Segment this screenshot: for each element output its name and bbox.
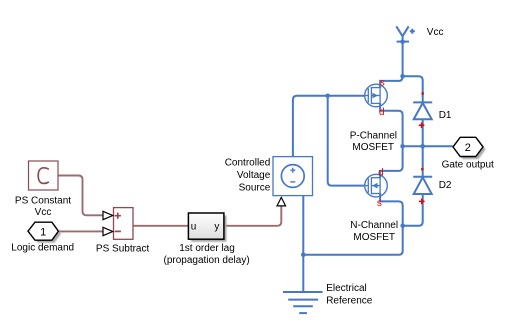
svg-text:Reference: Reference	[326, 296, 373, 307]
svg-text:D1: D1	[439, 110, 452, 121]
svg-text:d: d	[378, 168, 384, 179]
svg-text:P-Channel: P-Channel	[350, 130, 397, 141]
svg-text:Logic demand: Logic demand	[11, 243, 74, 254]
svg-text:d: d	[379, 107, 385, 118]
svg-text:D2: D2	[439, 180, 452, 191]
svg-text:s: s	[380, 78, 385, 89]
svg-text:Electrical: Electrical	[326, 283, 367, 294]
svg-text:Controlled: Controlled	[225, 158, 271, 169]
svg-text:PS Subtract: PS Subtract	[96, 244, 150, 255]
svg-text:2: 2	[465, 142, 471, 154]
svg-text:s: s	[377, 198, 382, 209]
svg-text:PS Constant: PS Constant	[15, 196, 71, 207]
svg-text:MOSFET: MOSFET	[353, 232, 395, 243]
svg-text:Gate output: Gate output	[442, 160, 494, 171]
svg-text:Vcc: Vcc	[427, 27, 444, 38]
svg-text:(propagation delay): (propagation delay)	[164, 255, 250, 266]
svg-text:1: 1	[40, 226, 46, 238]
svg-text:Source: Source	[239, 182, 271, 193]
svg-text:MOSFET: MOSFET	[352, 142, 394, 153]
svg-text:Vcc: Vcc	[35, 207, 52, 218]
svg-text:Voltage: Voltage	[237, 170, 271, 181]
svg-text:1st order lag: 1st order lag	[179, 243, 235, 254]
svg-text:N-Channel: N-Channel	[350, 220, 398, 231]
svg-text:u: u	[191, 222, 197, 233]
svg-text:y: y	[214, 222, 219, 233]
